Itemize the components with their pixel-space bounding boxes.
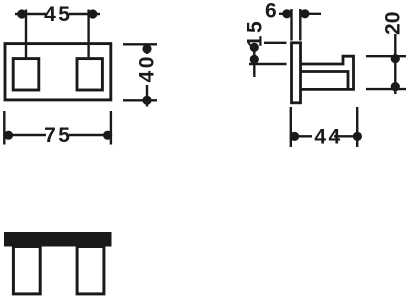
- svg-text:6: 6: [265, 0, 277, 23]
- svg-text:40: 40: [136, 54, 159, 82]
- svg-text:75: 75: [44, 124, 72, 147]
- svg-text:44: 44: [314, 126, 342, 149]
- svg-text:20: 20: [382, 12, 405, 35]
- svg-text:15: 15: [244, 19, 267, 47]
- svg-text:45: 45: [44, 3, 72, 26]
